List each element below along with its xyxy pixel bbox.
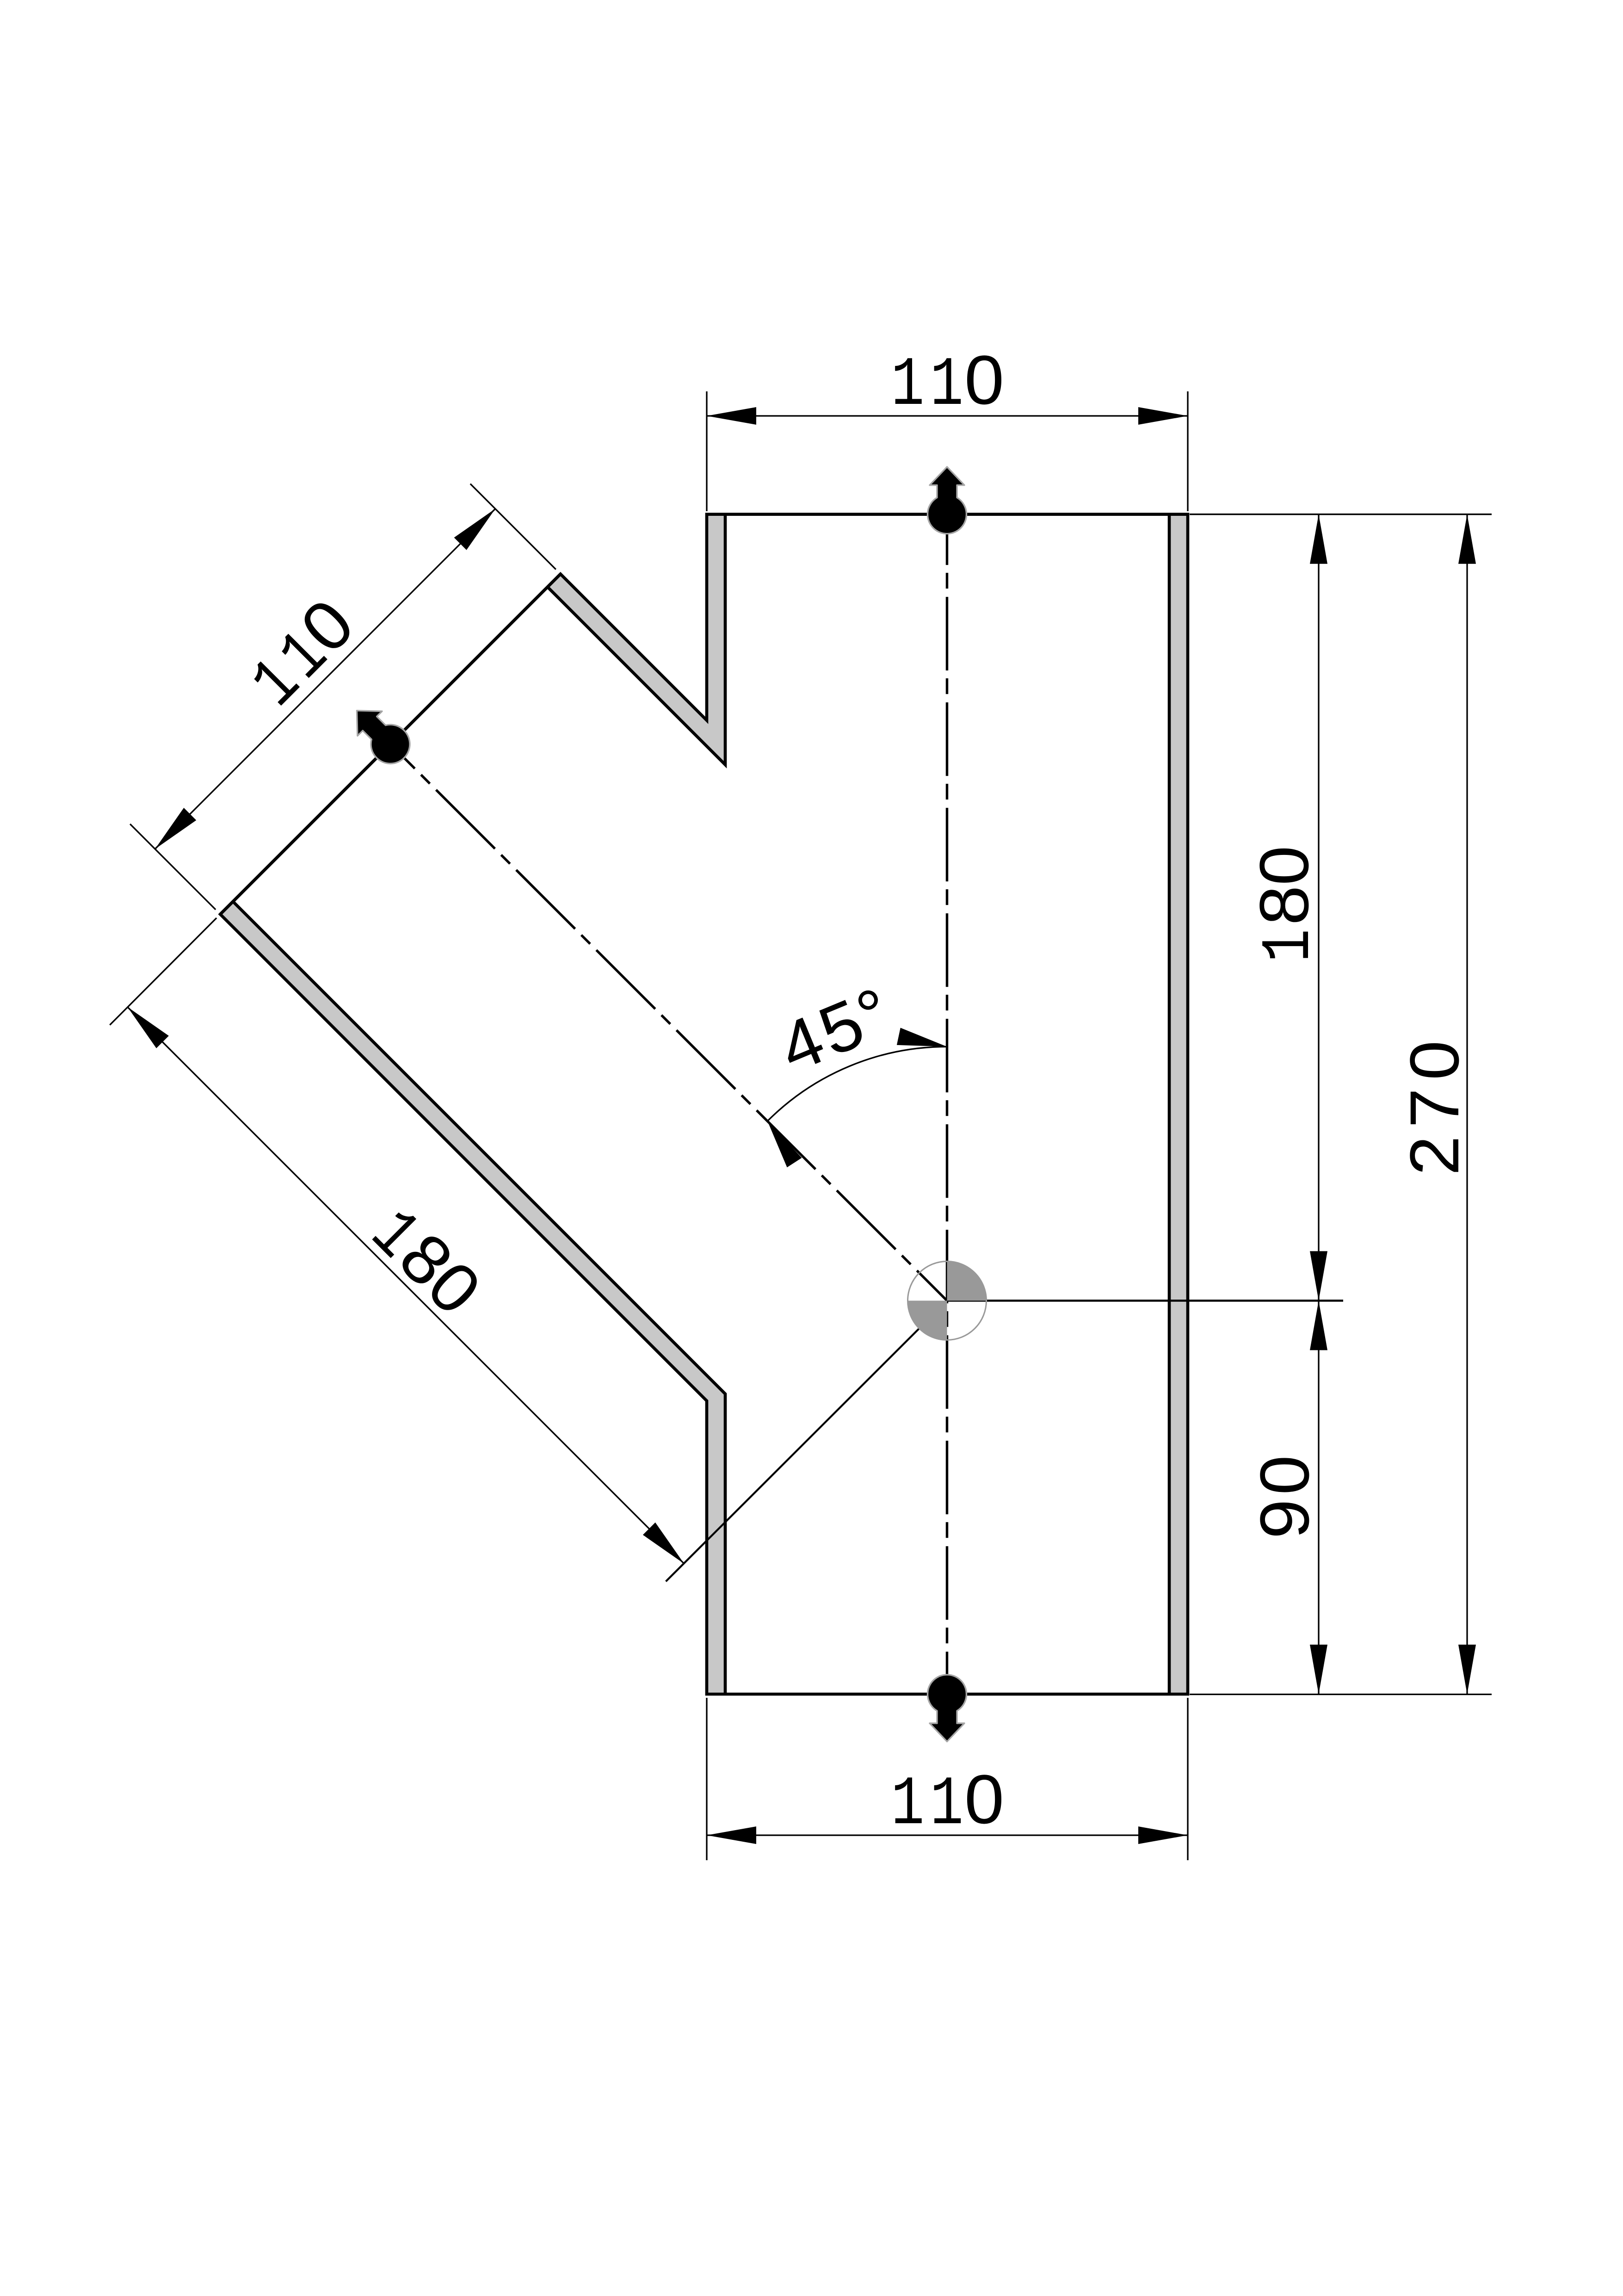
svg-text:0: 0 [964, 341, 1004, 419]
arrow angle-45 lower (at branch centerline) [760, 1116, 802, 1167]
arrow angle-45 upper (at vertical centerline) [897, 1028, 949, 1055]
extension line top-right [1187, 391, 1188, 511]
svg-text:1: 1 [891, 1766, 925, 1844]
branch centerline [390, 744, 947, 1301]
dimension text 180 right [1245, 846, 1329, 962]
dimension text 270 right [1395, 1040, 1473, 1176]
extension line branch-cap lower [130, 824, 216, 910]
main pipe centerline [946, 514, 948, 1694]
dimension line 270 right [1466, 514, 1468, 1694]
extension line bottom-left [706, 1698, 707, 1860]
angle dimension arc 45 [767, 1047, 947, 1121]
arrow 90-right bottom [1310, 1645, 1327, 1694]
extension line 180-diag at center (perp to branch axis) [666, 1301, 947, 1582]
arrow top-110 left [707, 407, 756, 425]
arrow 180-right top [1310, 514, 1327, 564]
arrow branch-110 lower [149, 808, 197, 855]
svg-text:1: 1 [1251, 929, 1329, 962]
flow symbol branch opening [343, 697, 418, 772]
arrow top-110 right [1138, 407, 1188, 425]
dimension line branch 180 [128, 1007, 684, 1564]
svg-text:1: 1 [891, 347, 925, 425]
svg-text:2: 2 [1395, 1136, 1473, 1176]
inner wall line right [1168, 514, 1171, 1694]
extension line top-left [706, 391, 707, 511]
flow symbol top opening [928, 467, 967, 533]
svg-text:0: 0 [1246, 1455, 1323, 1495]
dimension line top 110 [707, 415, 1188, 416]
extension line branch-180 at cap [110, 918, 216, 1025]
dimension line branch 110 [155, 509, 495, 849]
inner wall line branch lower and left-bottom [233, 902, 725, 1694]
arrow 270 top [1458, 514, 1476, 564]
extension line right-bottom [1190, 1694, 1492, 1695]
dimension text 90 right [1246, 1455, 1323, 1539]
arrow bottom-110 right [1138, 1826, 1188, 1844]
dimension line 90 right [1318, 1301, 1319, 1695]
arrow 90-right top [1310, 1301, 1327, 1350]
dimension line 180 right [1318, 514, 1319, 1301]
extension line branch-cap upper [470, 484, 556, 569]
dimension text 110 bottom [891, 1760, 1005, 1844]
svg-text:9: 9 [1246, 1499, 1323, 1539]
center horizontal leader line [947, 1300, 1344, 1302]
pipe wall upper-left (gray fill) [548, 514, 725, 765]
arrow branch-110 upper [454, 502, 502, 550]
arrow 180-right bottom [1310, 1251, 1327, 1301]
arrow bottom-110 left [707, 1826, 756, 1844]
pipe outer contour [220, 514, 1188, 1694]
extension line right-top [1190, 514, 1492, 515]
svg-text:0: 0 [1245, 846, 1323, 885]
svg-text:0: 0 [964, 1760, 1004, 1838]
branch opening cap edge [220, 574, 561, 914]
centroid symbol circle [908, 1262, 987, 1340]
dimension line bottom 110 [707, 1834, 1188, 1836]
flow symbol bottom opening [928, 1675, 967, 1741]
arrow 270 bottom [1458, 1645, 1476, 1694]
svg-text:8: 8 [1245, 885, 1323, 925]
arrow branch-180 lower [643, 1522, 691, 1570]
inner wall line left-top and branch upper [548, 514, 725, 765]
pipe wall right (gray fill) [1169, 514, 1188, 1694]
angle text 45deg [768, 972, 901, 1087]
arrow branch-180 upper [121, 1001, 169, 1048]
svg-text:1: 1 [930, 1766, 963, 1844]
dimension text 110 branch [234, 584, 373, 724]
svg-text:1: 1 [930, 347, 963, 425]
extension line bottom-right [1187, 1698, 1188, 1860]
dimension text 110 top [891, 341, 1005, 425]
pipe wall lower-left / branch lower (gray fill) [220, 902, 725, 1694]
svg-text:0: 0 [1395, 1040, 1473, 1080]
svg-text:7: 7 [1395, 1088, 1473, 1128]
dimension text 180 branch [354, 1192, 496, 1334]
